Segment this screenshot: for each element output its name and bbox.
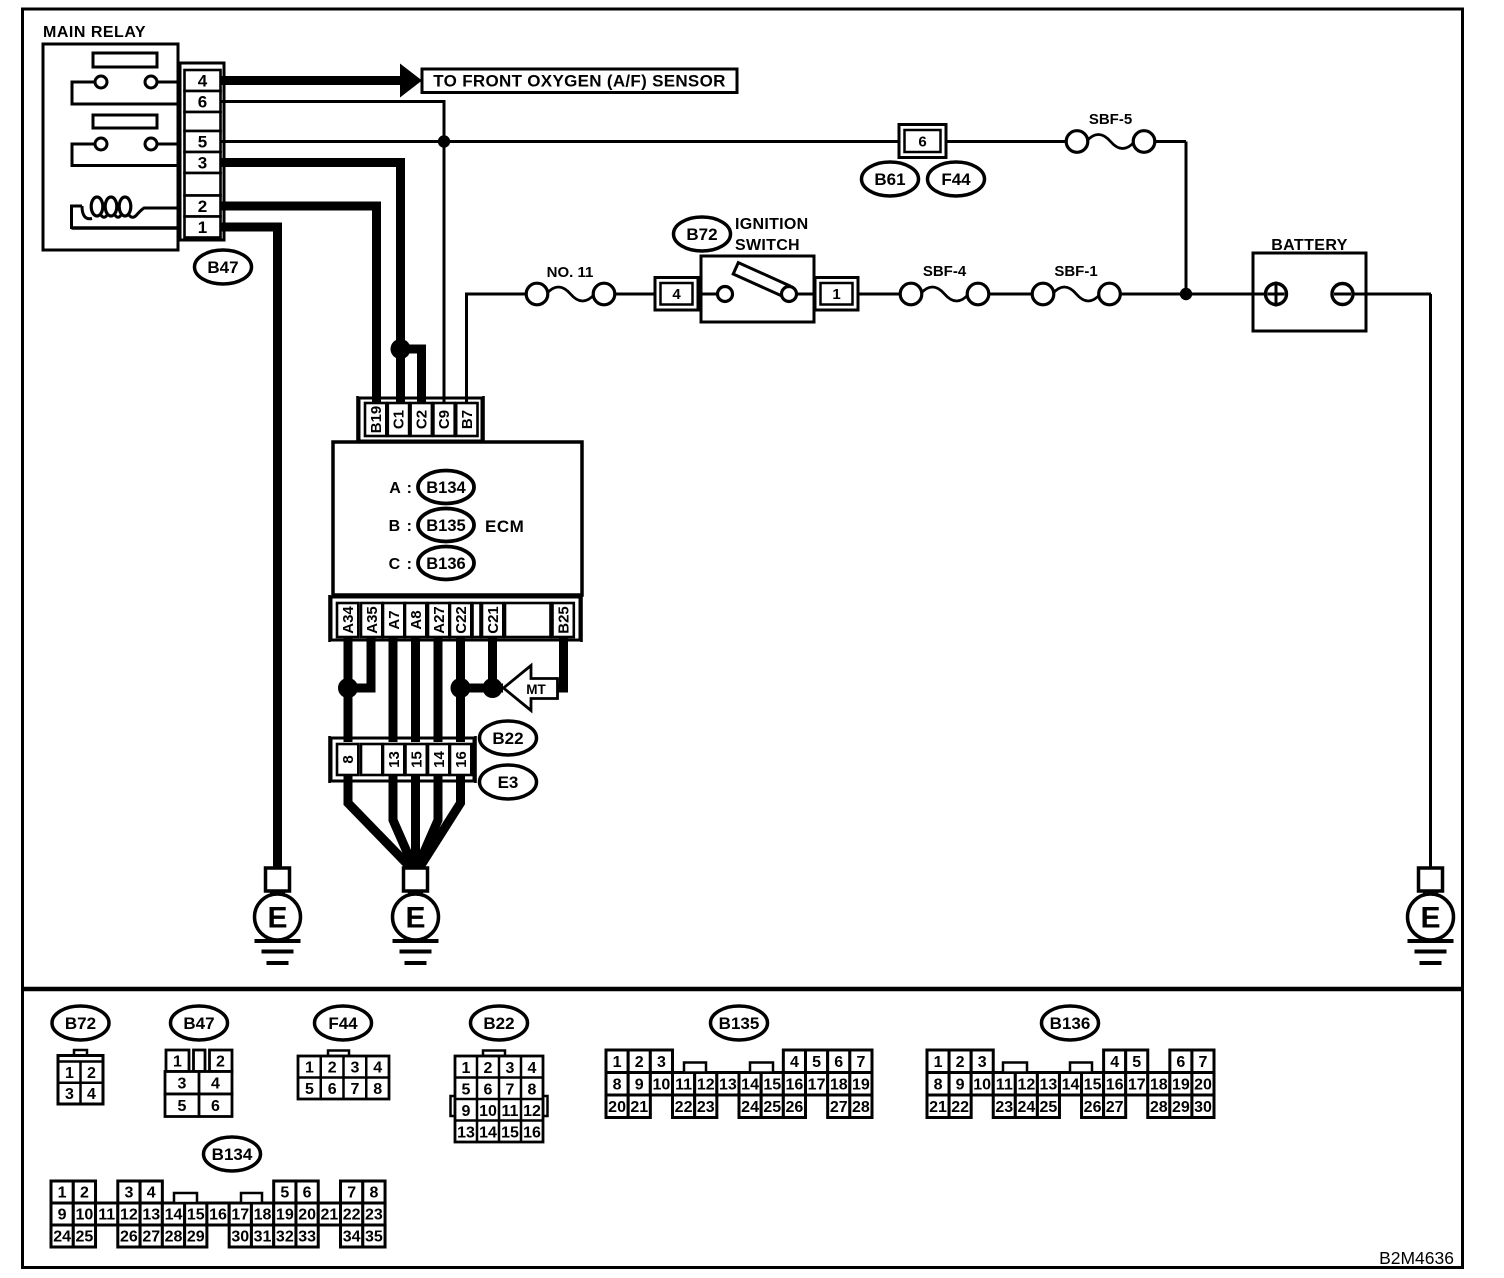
svg-text:1: 1	[613, 1054, 622, 1071]
svg-text:19: 19	[276, 1207, 294, 1224]
svg-text:A :: A :	[389, 480, 413, 497]
svg-text:27: 27	[830, 1099, 848, 1116]
svg-text:15: 15	[501, 1124, 519, 1141]
svg-text:12: 12	[1017, 1076, 1035, 1093]
svg-text:5: 5	[1132, 1054, 1141, 1071]
svg-text:13: 13	[1040, 1076, 1058, 1093]
svg-text:4: 4	[147, 1185, 156, 1202]
svg-text:IGNITION: IGNITION	[735, 216, 809, 233]
svg-text:10: 10	[653, 1076, 671, 1093]
svg-text:14: 14	[165, 1207, 183, 1224]
svg-text:NO. 11: NO. 11	[547, 264, 594, 281]
svg-text:B136: B136	[426, 555, 465, 573]
svg-text:5: 5	[462, 1081, 471, 1098]
svg-text:A34: A34	[340, 606, 357, 634]
svg-text:3: 3	[978, 1054, 987, 1071]
svg-text:SBF-4: SBF-4	[923, 263, 967, 280]
svg-text:3: 3	[124, 1185, 133, 1202]
svg-text:16: 16	[786, 1076, 804, 1093]
svg-text:13: 13	[719, 1076, 737, 1093]
svg-text:23: 23	[365, 1207, 383, 1224]
svg-text:28: 28	[165, 1229, 183, 1246]
svg-text:13: 13	[386, 751, 403, 768]
svg-text:29: 29	[1172, 1099, 1190, 1116]
svg-text:17: 17	[1128, 1076, 1146, 1093]
svg-text:24: 24	[53, 1229, 71, 1246]
svg-text:1: 1	[65, 1065, 74, 1082]
svg-text:18: 18	[254, 1207, 272, 1224]
svg-text:4: 4	[1110, 1054, 1119, 1071]
svg-text:15: 15	[187, 1207, 205, 1224]
svg-text:1: 1	[305, 1059, 314, 1076]
svg-text:24: 24	[741, 1099, 759, 1116]
svg-text:C :: C :	[389, 556, 413, 573]
svg-text:21: 21	[320, 1207, 338, 1224]
svg-text:8: 8	[340, 755, 357, 763]
svg-text:25: 25	[76, 1229, 94, 1246]
svg-text:15: 15	[408, 751, 425, 768]
svg-text:B2M4636: B2M4636	[1379, 1248, 1454, 1268]
svg-text:2: 2	[87, 1065, 96, 1082]
svg-text:6: 6	[484, 1081, 493, 1098]
svg-text:SBF-1: SBF-1	[1054, 263, 1097, 280]
svg-text:1: 1	[173, 1053, 182, 1070]
svg-text:5: 5	[178, 1098, 187, 1115]
svg-text:5: 5	[812, 1054, 821, 1071]
svg-text:5: 5	[280, 1185, 289, 1202]
svg-text:14: 14	[741, 1076, 759, 1093]
svg-text:8: 8	[613, 1076, 622, 1093]
svg-text:22: 22	[675, 1099, 693, 1116]
svg-text:2: 2	[484, 1060, 493, 1077]
svg-text:2: 2	[216, 1053, 225, 1070]
svg-text:15: 15	[1084, 1076, 1102, 1093]
svg-text:MAIN RELAY: MAIN RELAY	[43, 24, 146, 41]
svg-text:10: 10	[76, 1207, 94, 1224]
svg-text:TO FRONT OXYGEN (A/F) SENSOR: TO FRONT OXYGEN (A/F) SENSOR	[433, 72, 725, 91]
svg-text:26: 26	[1084, 1099, 1102, 1116]
svg-text:4: 4	[211, 1075, 220, 1092]
svg-text:A7: A7	[386, 610, 403, 629]
svg-text:SBF-5: SBF-5	[1089, 111, 1132, 128]
svg-text:25: 25	[1040, 1099, 1058, 1116]
svg-text:30: 30	[231, 1229, 249, 1246]
svg-text:7: 7	[350, 1081, 359, 1098]
svg-text:12: 12	[523, 1103, 541, 1120]
svg-text:11: 11	[502, 1103, 519, 1120]
svg-text:1: 1	[198, 218, 207, 237]
svg-text:B47: B47	[207, 258, 238, 277]
svg-text:11: 11	[675, 1076, 692, 1093]
svg-text:ECM: ECM	[485, 517, 524, 536]
svg-text:21: 21	[630, 1099, 648, 1116]
svg-text:7: 7	[506, 1081, 515, 1098]
svg-text:5: 5	[305, 1081, 314, 1098]
svg-text:16: 16	[209, 1207, 227, 1224]
svg-text:14: 14	[479, 1124, 497, 1141]
svg-text:32: 32	[276, 1229, 294, 1246]
svg-text:4: 4	[198, 72, 208, 91]
svg-text:18: 18	[830, 1076, 848, 1093]
svg-text:23: 23	[995, 1099, 1013, 1116]
svg-text:28: 28	[852, 1099, 870, 1116]
svg-text:2: 2	[328, 1059, 337, 1076]
svg-text:24: 24	[1017, 1099, 1035, 1116]
svg-text:B134: B134	[212, 1145, 253, 1164]
svg-text:34: 34	[343, 1229, 361, 1246]
svg-text:4: 4	[528, 1060, 537, 1077]
svg-text:1: 1	[58, 1185, 67, 1202]
svg-text:14: 14	[1062, 1076, 1080, 1093]
svg-text:9: 9	[956, 1076, 965, 1093]
svg-text:26: 26	[120, 1229, 138, 1246]
svg-text:21: 21	[929, 1099, 947, 1116]
svg-text:C21: C21	[485, 606, 502, 634]
svg-text:25: 25	[763, 1099, 781, 1116]
svg-text:20: 20	[1194, 1076, 1212, 1093]
svg-text:16: 16	[453, 751, 470, 768]
svg-text:20: 20	[298, 1207, 316, 1224]
svg-text:4: 4	[373, 1059, 382, 1076]
svg-text:B135: B135	[719, 1014, 760, 1033]
svg-text:16: 16	[1106, 1076, 1124, 1093]
svg-text:16: 16	[523, 1124, 541, 1141]
svg-text:2: 2	[198, 197, 207, 216]
svg-text:E: E	[405, 902, 425, 935]
svg-text:B25: B25	[555, 606, 572, 634]
svg-text:B135: B135	[426, 517, 465, 535]
svg-text:31: 31	[254, 1229, 272, 1246]
svg-text:6: 6	[1176, 1054, 1185, 1071]
svg-text:8: 8	[934, 1076, 943, 1093]
svg-text:6: 6	[918, 133, 926, 150]
svg-text:B72: B72	[65, 1014, 96, 1033]
svg-text:F44: F44	[328, 1014, 358, 1033]
svg-text:19: 19	[1172, 1076, 1190, 1093]
svg-text:E3: E3	[498, 773, 519, 792]
svg-text:9: 9	[58, 1207, 67, 1224]
svg-text:10: 10	[973, 1076, 991, 1093]
svg-text:23: 23	[697, 1099, 715, 1116]
svg-text:2: 2	[635, 1054, 644, 1071]
svg-text:8: 8	[373, 1081, 382, 1098]
svg-text:13: 13	[457, 1124, 475, 1141]
svg-text:F44: F44	[941, 170, 971, 189]
svg-text:6: 6	[328, 1081, 337, 1098]
svg-text:22: 22	[343, 1207, 361, 1224]
svg-text:19: 19	[852, 1076, 870, 1093]
svg-text:2: 2	[956, 1054, 965, 1071]
svg-text:8: 8	[369, 1185, 378, 1202]
svg-text:A8: A8	[408, 610, 425, 629]
svg-text:5: 5	[198, 133, 207, 152]
svg-text:3: 3	[657, 1054, 666, 1071]
svg-text:B136: B136	[1050, 1014, 1091, 1033]
svg-text:B134: B134	[426, 479, 466, 497]
svg-text:B19: B19	[368, 406, 385, 434]
svg-text:20: 20	[608, 1099, 626, 1116]
svg-text:9: 9	[462, 1103, 471, 1120]
svg-text:C22: C22	[453, 606, 470, 634]
svg-text:SWITCH: SWITCH	[735, 237, 800, 254]
svg-text:9: 9	[635, 1076, 644, 1093]
svg-text:11: 11	[996, 1076, 1013, 1093]
svg-text:E: E	[267, 902, 287, 935]
svg-text:6: 6	[834, 1054, 843, 1071]
svg-text:B7: B7	[459, 410, 476, 429]
svg-text:30: 30	[1194, 1099, 1212, 1116]
svg-text:13: 13	[142, 1207, 160, 1224]
svg-text:4: 4	[87, 1086, 96, 1103]
svg-text:A27: A27	[431, 606, 448, 634]
svg-text:3: 3	[506, 1060, 515, 1077]
svg-text:B22: B22	[492, 729, 523, 748]
svg-text:26: 26	[786, 1099, 804, 1116]
svg-text:6: 6	[303, 1185, 312, 1202]
svg-text:7: 7	[347, 1185, 356, 1202]
svg-text:B47: B47	[183, 1014, 214, 1033]
svg-text:C2: C2	[413, 410, 430, 429]
svg-text:15: 15	[763, 1076, 781, 1093]
svg-text:3: 3	[350, 1059, 359, 1076]
svg-text:11: 11	[98, 1207, 115, 1224]
svg-text:C1: C1	[391, 410, 408, 429]
svg-text:3: 3	[178, 1075, 187, 1092]
svg-text:BATTERY: BATTERY	[1271, 237, 1348, 254]
svg-text:2: 2	[80, 1185, 89, 1202]
svg-text:12: 12	[120, 1207, 138, 1224]
svg-text:27: 27	[142, 1229, 160, 1246]
svg-text:6: 6	[198, 93, 207, 112]
svg-text:17: 17	[231, 1207, 249, 1224]
svg-text:3: 3	[65, 1086, 74, 1103]
svg-text:17: 17	[808, 1076, 826, 1093]
svg-text:1: 1	[462, 1060, 471, 1077]
svg-text:8: 8	[528, 1081, 537, 1098]
svg-text:3: 3	[198, 154, 207, 173]
svg-text:33: 33	[298, 1229, 316, 1246]
svg-text:B61: B61	[874, 170, 905, 189]
svg-text:7: 7	[856, 1054, 865, 1071]
svg-text:B22: B22	[483, 1014, 514, 1033]
svg-text:7: 7	[1199, 1054, 1208, 1071]
svg-text:B :: B :	[389, 518, 413, 535]
svg-text:29: 29	[187, 1229, 205, 1246]
svg-text:6: 6	[211, 1098, 220, 1115]
svg-text:A35: A35	[364, 606, 381, 634]
svg-text:B72: B72	[686, 225, 717, 244]
svg-text:1: 1	[934, 1054, 943, 1071]
svg-text:22: 22	[951, 1099, 969, 1116]
svg-text:18: 18	[1150, 1076, 1168, 1093]
svg-text:MT: MT	[526, 682, 546, 697]
svg-text:4: 4	[790, 1054, 799, 1071]
svg-text:1: 1	[832, 286, 840, 303]
svg-text:10: 10	[479, 1103, 497, 1120]
svg-text:E: E	[1420, 902, 1440, 935]
svg-text:4: 4	[672, 286, 681, 303]
svg-text:27: 27	[1106, 1099, 1124, 1116]
svg-text:C9: C9	[436, 410, 453, 429]
svg-text:28: 28	[1150, 1099, 1168, 1116]
svg-text:12: 12	[697, 1076, 715, 1093]
svg-text:35: 35	[365, 1229, 383, 1246]
svg-text:14: 14	[431, 751, 448, 768]
